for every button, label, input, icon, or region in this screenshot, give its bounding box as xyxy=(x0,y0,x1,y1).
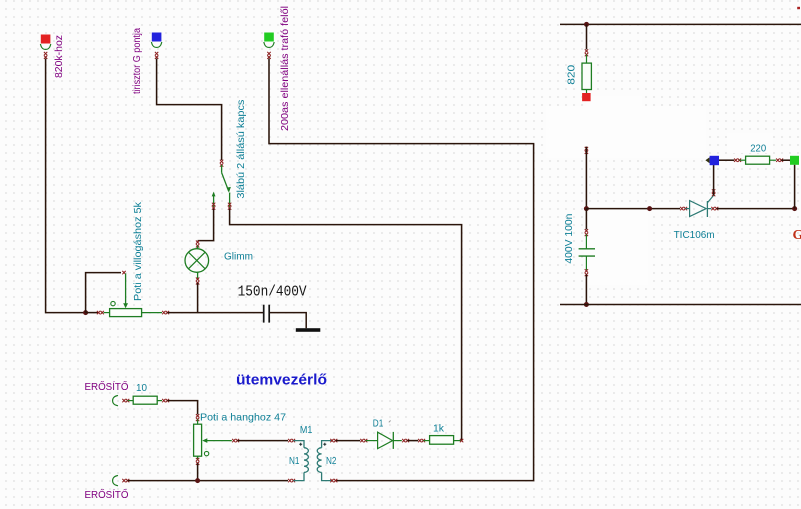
wire N2 top to diode xyxy=(336,440,361,442)
connector EROSITO top xyxy=(113,395,118,405)
wire P1 to capacitor C1 xyxy=(167,312,263,314)
potentiometer P2 Poti a hanghoz 47 xyxy=(197,419,199,424)
switch S1 3labu 2 allasu kapcs xyxy=(220,160,223,163)
svg-text:400V 100n: 400V 100n xyxy=(563,213,575,263)
wire switch left contact to lamp xyxy=(198,209,214,241)
pin marks J3 xyxy=(267,52,270,55)
node B junction dot xyxy=(195,478,200,483)
connector EROSITO bottom xyxy=(113,475,118,485)
wire J3 to bottom rail of block xyxy=(269,59,534,481)
wire node A to P1 xyxy=(86,312,98,314)
white patch near 220 label xyxy=(727,133,773,153)
thyristor U1 TIC106m xyxy=(685,208,689,210)
svg-text:M1: M1 xyxy=(300,424,313,436)
top rail wire xyxy=(560,23,801,25)
wire C1 to ground xyxy=(270,313,306,329)
svg-text:ütemvezérlő: ütemvezérlő xyxy=(236,372,327,389)
wire D1 to R3 xyxy=(407,440,418,442)
wire down to R4 xyxy=(586,24,588,49)
node G junction dot xyxy=(792,206,797,211)
connector J1 (red square, 820k-hoz) xyxy=(41,35,51,44)
wire wiper to transformer N1 xyxy=(237,440,288,442)
wire wiper loop P1 xyxy=(86,273,121,313)
wire bottom rail xyxy=(128,480,288,482)
svg-text:Poti a hanghoz 47: Poti a hanghoz 47 xyxy=(200,411,286,423)
svg-text:D1: D1 xyxy=(373,418,384,430)
pin marks wiper P1 xyxy=(122,271,125,274)
bottom rail wire xyxy=(560,304,801,306)
wire J2 to switch xyxy=(157,59,222,161)
wire lamp to node row xyxy=(197,283,199,313)
gate lead xyxy=(707,195,713,202)
svg-text:G: G xyxy=(793,228,801,243)
wire node D to thyristor xyxy=(586,208,680,210)
resistor R5 220 xyxy=(739,159,745,161)
wire thyristor to node G xyxy=(717,208,795,210)
connector red square below R4 xyxy=(582,93,591,101)
pin marks J1 xyxy=(44,52,47,55)
svg-text:200as ellenállás trafó felől: 200as ellenállás trafó felől xyxy=(279,6,291,131)
node C junction dot xyxy=(584,22,589,27)
svg-text:ERŐSÍTŐ: ERŐSÍTŐ xyxy=(85,379,129,393)
ground xyxy=(296,328,321,332)
white patch upper-right area xyxy=(546,106,706,158)
node A junction dot xyxy=(83,310,88,315)
stray red pin mark top right corner xyxy=(797,7,800,9)
wire J1 down to node xyxy=(46,59,86,313)
svg-text:3lábú 2 állású kapcs: 3lábú 2 állású kapcs xyxy=(235,100,247,199)
connector blue square (gate) xyxy=(705,157,709,163)
svg-text:820: 820 xyxy=(566,65,578,85)
P2 wiper arrow xyxy=(202,438,207,443)
connector J3 (green square, 200as ellenallas trafo felol) xyxy=(264,33,274,42)
node E junction dot xyxy=(584,302,589,307)
connector green square right xyxy=(781,159,790,161)
wire blue square to R5 xyxy=(719,159,734,161)
capacitor C2 400V 100n xyxy=(585,234,587,248)
wire middle vertical to C2 xyxy=(585,147,588,150)
svg-text:Glimm: Glimm xyxy=(224,251,253,263)
capacitor C1 150n/400V xyxy=(263,305,265,323)
P1 right lead xyxy=(142,312,162,314)
svg-text:Poti a villogáshoz 5k: Poti a villogáshoz 5k xyxy=(132,201,144,301)
svg-text:TIC106m: TIC106m xyxy=(674,229,715,241)
svg-text:ERŐSÍTŐ: ERŐSÍTŐ xyxy=(85,487,129,501)
svg-text:N1: N1 xyxy=(289,455,300,467)
wire green square down to node G xyxy=(794,165,796,209)
resistor R2 10 xyxy=(128,400,134,402)
node D junction dot xyxy=(584,206,589,211)
svg-text:10: 10 xyxy=(136,382,147,394)
resistor R4 820 xyxy=(586,55,588,64)
connector J2 (blue square, tirisztor G pontja) xyxy=(152,33,162,42)
svg-text:1k: 1k xyxy=(433,423,445,435)
diode D1 xyxy=(366,440,378,442)
node F junction dot xyxy=(647,206,652,211)
potentiometer P1 Poti a villogashoz 5k xyxy=(125,274,127,306)
lamp LA1 Glimm xyxy=(196,241,199,244)
svg-text:tirisztor G pontja: tirisztor G pontja xyxy=(131,28,143,94)
svg-text:N2: N2 xyxy=(326,455,337,467)
pin marks J2 xyxy=(155,52,158,55)
white patch near 400V cap xyxy=(584,205,648,285)
svg-text:150n/400V: 150n/400V xyxy=(238,285,307,301)
svg-text:820k-hoz: 820k-hoz xyxy=(53,35,65,78)
wire switch right contact to 1k xyxy=(230,209,462,441)
resistor R3 1k xyxy=(423,440,429,442)
wire R2 to P2 xyxy=(167,401,197,415)
svg-text:220: 220 xyxy=(750,143,766,155)
transformer M1 xyxy=(293,441,304,448)
